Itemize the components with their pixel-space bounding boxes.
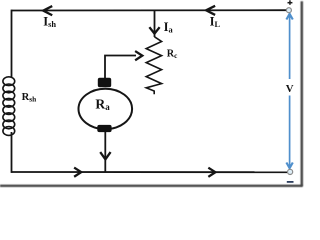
voltage arrow V (blue, double headed) bbox=[286, 14, 292, 168]
arrow Ia (down) bbox=[150, 28, 159, 34]
wire left side upper bbox=[11, 10, 13, 78]
wire bottom bus bbox=[12, 171, 288, 173]
label + (top terminal) bbox=[288, 0, 293, 5]
wire Ia branch bbox=[154, 11, 156, 38]
wire wiper horizontal bbox=[105, 56, 136, 79]
wire left side lower bbox=[11, 132, 13, 173]
svg-text:V: V bbox=[286, 83, 294, 95]
svg-text:Rsh: Rsh bbox=[22, 92, 37, 104]
wire top bus bbox=[12, 9, 287, 11]
frame bottom border bbox=[0, 185, 303, 187]
arrow bottom bus right (right) bbox=[209, 168, 215, 176]
arrow bottom bus left (right) bbox=[75, 168, 81, 176]
svg-text:Ra: Ra bbox=[95, 96, 110, 112]
motor armature Ra (circle) bbox=[79, 89, 133, 129]
wire armature lower lead bbox=[104, 132, 106, 173]
svg-text:Ish: Ish bbox=[43, 15, 56, 30]
arrowhead V top (up) bbox=[286, 14, 292, 20]
node terminal top-right bbox=[286, 8, 291, 13]
brush top bbox=[98, 78, 111, 87]
node terminal bottom-right bbox=[288, 169, 293, 174]
arrow Ish (left, top bus) bbox=[43, 7, 51, 15]
arrow wiper (right, into Rc) bbox=[136, 52, 142, 60]
arrow IL (left, top bus) bbox=[206, 6, 214, 14]
svg-text:Rc: Rc bbox=[167, 49, 178, 60]
svg-text:IL: IL bbox=[210, 15, 221, 29]
resistor Rc (starter rheostat zigzag) bbox=[146, 37, 161, 94]
label - (bottom terminal) bbox=[287, 181, 294, 183]
inductor Rsh (shunt field coil) bbox=[3, 77, 15, 136]
arrowhead V bottom (down) bbox=[286, 163, 292, 169]
arrow armature lead (down) bbox=[101, 153, 110, 159]
svg-text:Ia: Ia bbox=[164, 20, 174, 35]
frame right border bbox=[301, 1, 304, 186]
brush bottom bbox=[97, 125, 111, 132]
